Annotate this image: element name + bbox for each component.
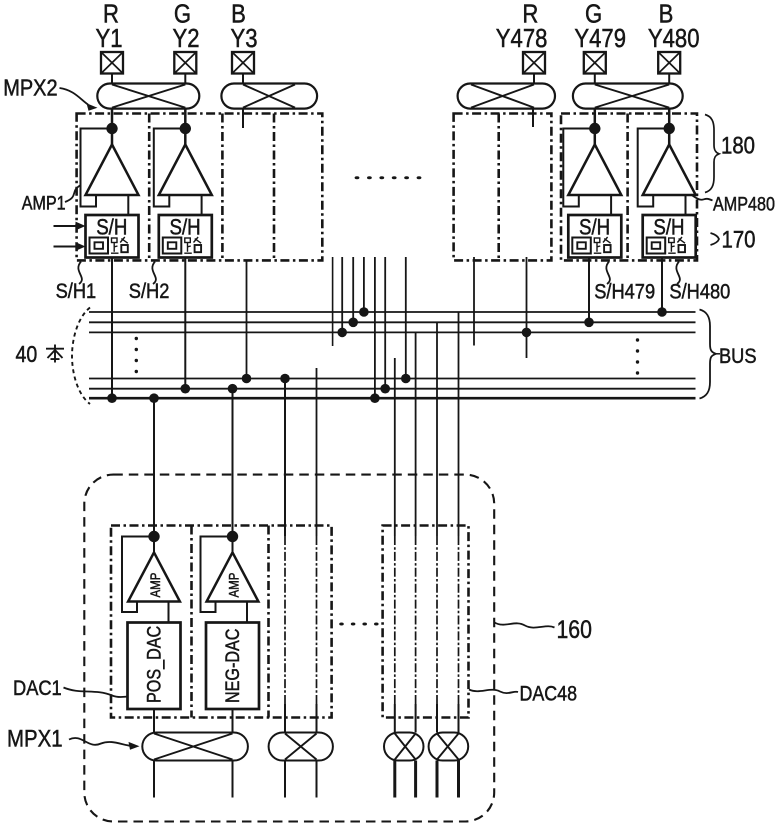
- svg-text:Y478: Y478: [496, 24, 548, 53]
- svg-text:MPX2: MPX2: [3, 74, 57, 101]
- svg-text:POS_DAC: POS_DAC: [143, 626, 166, 703]
- svg-text:160: 160: [557, 615, 592, 643]
- svg-text:Y2: Y2: [172, 24, 199, 53]
- svg-text:Y479: Y479: [574, 24, 626, 53]
- svg-text:S/H479: S/H479: [594, 280, 655, 304]
- svg-text:AMP1: AMP1: [22, 192, 66, 214]
- svg-text:BUS: BUS: [719, 345, 757, 369]
- svg-text:40: 40: [16, 342, 38, 368]
- svg-text:180: 180: [721, 132, 755, 159]
- svg-text:Y1: Y1: [95, 24, 122, 53]
- svg-text:DAC48: DAC48: [520, 682, 577, 706]
- svg-text:MPX1: MPX1: [7, 725, 63, 752]
- svg-text:170: 170: [722, 226, 756, 253]
- svg-text:Y480: Y480: [648, 24, 700, 53]
- svg-text:AMP480: AMP480: [713, 193, 775, 215]
- svg-text:S/H2: S/H2: [129, 280, 170, 304]
- svg-text:S/H1: S/H1: [56, 280, 97, 304]
- svg-text:DAC1: DAC1: [13, 677, 62, 701]
- svg-text:Y3: Y3: [230, 24, 257, 53]
- svg-text:NEG-DAC: NEG-DAC: [222, 628, 244, 703]
